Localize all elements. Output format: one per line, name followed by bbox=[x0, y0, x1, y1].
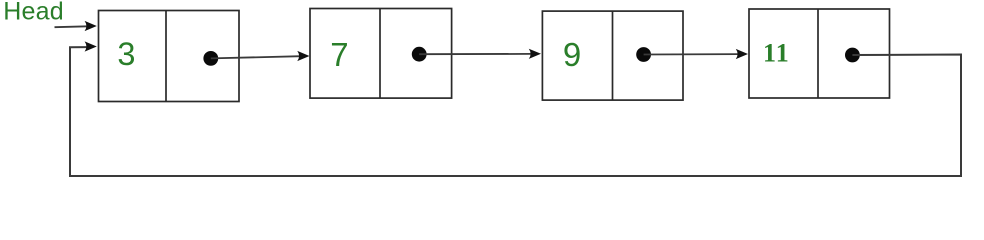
node 3 pointer dot bbox=[636, 47, 651, 62]
node 3 box bbox=[542, 11, 683, 100]
node 3 divider bbox=[612, 11, 614, 100]
arrow Head to node 1 bbox=[55, 21, 97, 31]
svg-text:7: 7 bbox=[330, 36, 348, 73]
arrow node 1 to node 2 bbox=[211, 51, 310, 61]
svg-text:11: 11 bbox=[763, 39, 790, 68]
node 1 pointer dot bbox=[203, 51, 218, 66]
arrow node 2 to node 3 bbox=[419, 49, 541, 59]
node 2 pointer dot bbox=[412, 47, 427, 62]
circular return wire from node 4 to node 1 bbox=[70, 41, 961, 176]
svg-text:3: 3 bbox=[117, 36, 135, 72]
node 4 pointer dot bbox=[845, 48, 860, 63]
node 2 divider bbox=[379, 9, 381, 99]
node 4 box bbox=[749, 9, 890, 98]
svg-text:Head: Head bbox=[3, 0, 64, 26]
svg-text:9: 9 bbox=[563, 36, 581, 73]
arrow node 3 to node 4 bbox=[644, 49, 748, 59]
node 2 box bbox=[310, 9, 452, 99]
node 1 box bbox=[99, 11, 240, 102]
node 1 divider bbox=[165, 11, 167, 102]
node 4 divider bbox=[817, 9, 819, 98]
